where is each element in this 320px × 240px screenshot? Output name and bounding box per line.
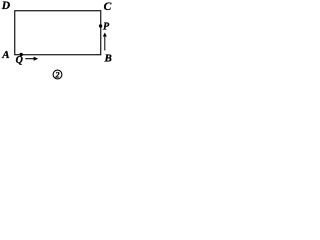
svg-text:2: 2 (55, 71, 60, 80)
arrow toward P (upward) (104, 37, 106, 51)
svg-text:Q: Q (16, 55, 23, 66)
svg-text:P: P (103, 22, 110, 33)
rectangle ABCD (15, 11, 101, 55)
arrow from Q (rightward) (25, 58, 34, 60)
svg-text:C: C (104, 1, 112, 13)
svg-text:D: D (1, 0, 11, 12)
svg-text:A: A (1, 49, 9, 61)
point P dot (99, 24, 102, 27)
point Q dot (20, 53, 23, 56)
caption circled 2 (53, 70, 62, 79)
svg-text:B: B (104, 53, 112, 65)
